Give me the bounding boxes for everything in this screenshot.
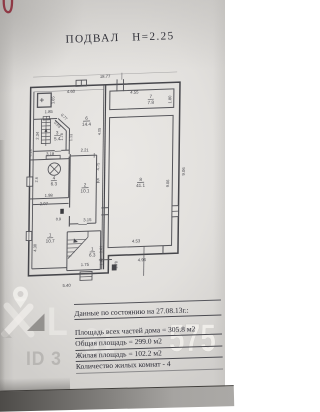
svg-text:6.3: 6.3: [51, 181, 58, 186]
svg-text:18.77: 18.77: [100, 74, 111, 79]
svg-text:6: 6: [85, 116, 88, 121]
svg-text:2.34: 2.34: [35, 131, 40, 140]
svg-text:4.75: 4.75: [95, 162, 100, 171]
svg-text:2.21: 2.21: [81, 147, 90, 152]
svg-text:3.15: 3.15: [83, 217, 92, 222]
svg-text:10.1: 10.1: [81, 188, 90, 193]
svg-text:1.65: 1.65: [50, 95, 55, 104]
svg-text:1: 1: [49, 232, 52, 237]
svg-text:1.78: 1.78: [60, 133, 64, 141]
svg-text:2.61: 2.61: [98, 246, 103, 254]
svg-text:7: 7: [150, 94, 153, 99]
svg-text:2.07: 2.07: [40, 201, 49, 206]
svg-text:14.4: 14.4: [82, 122, 91, 127]
svg-text:1.80: 1.80: [167, 95, 172, 104]
svg-text:0.77: 0.77: [60, 112, 69, 121]
svg-text:3: 3: [56, 130, 59, 135]
svg-text:8: 8: [139, 177, 142, 182]
svg-text:1.75: 1.75: [81, 262, 90, 267]
svg-text:3.18: 3.18: [46, 151, 55, 156]
svg-text:4.05: 4.05: [98, 128, 102, 136]
svg-text:1.98: 1.98: [99, 258, 103, 265]
svg-text:1.98: 1.98: [45, 193, 54, 198]
svg-text:4: 4: [53, 175, 56, 180]
svg-text:4.60: 4.60: [67, 89, 76, 94]
svg-text:9.06: 9.06: [165, 179, 170, 188]
svg-text:1.78: 1.78: [114, 261, 118, 269]
svg-text:1.85: 1.85: [45, 109, 54, 114]
svg-text:5.4: 5.4: [54, 136, 61, 141]
svg-text:4.30: 4.30: [32, 243, 37, 252]
svg-text:2.6: 2.6: [35, 177, 39, 182]
svg-text:4.96: 4.96: [138, 257, 147, 262]
svg-text:7.8: 7.8: [148, 100, 155, 105]
svg-text:4.13: 4.13: [29, 149, 33, 156]
svg-text:1.13: 1.13: [69, 134, 73, 142]
svg-text:4.53: 4.53: [132, 238, 141, 243]
svg-text:9.06: 9.06: [181, 167, 186, 176]
svg-text:1: 1: [91, 246, 94, 251]
svg-text:0.9: 0.9: [56, 217, 61, 221]
svg-text:2: 2: [84, 182, 87, 187]
svg-text:6.3: 6.3: [89, 252, 96, 257]
svg-text:5.40: 5.40: [63, 283, 72, 288]
svg-text:41.1: 41.1: [136, 183, 145, 188]
svg-text:10.7: 10.7: [46, 238, 55, 243]
svg-text:4.55: 4.55: [130, 89, 139, 94]
svg-text:5: 5: [97, 177, 100, 182]
